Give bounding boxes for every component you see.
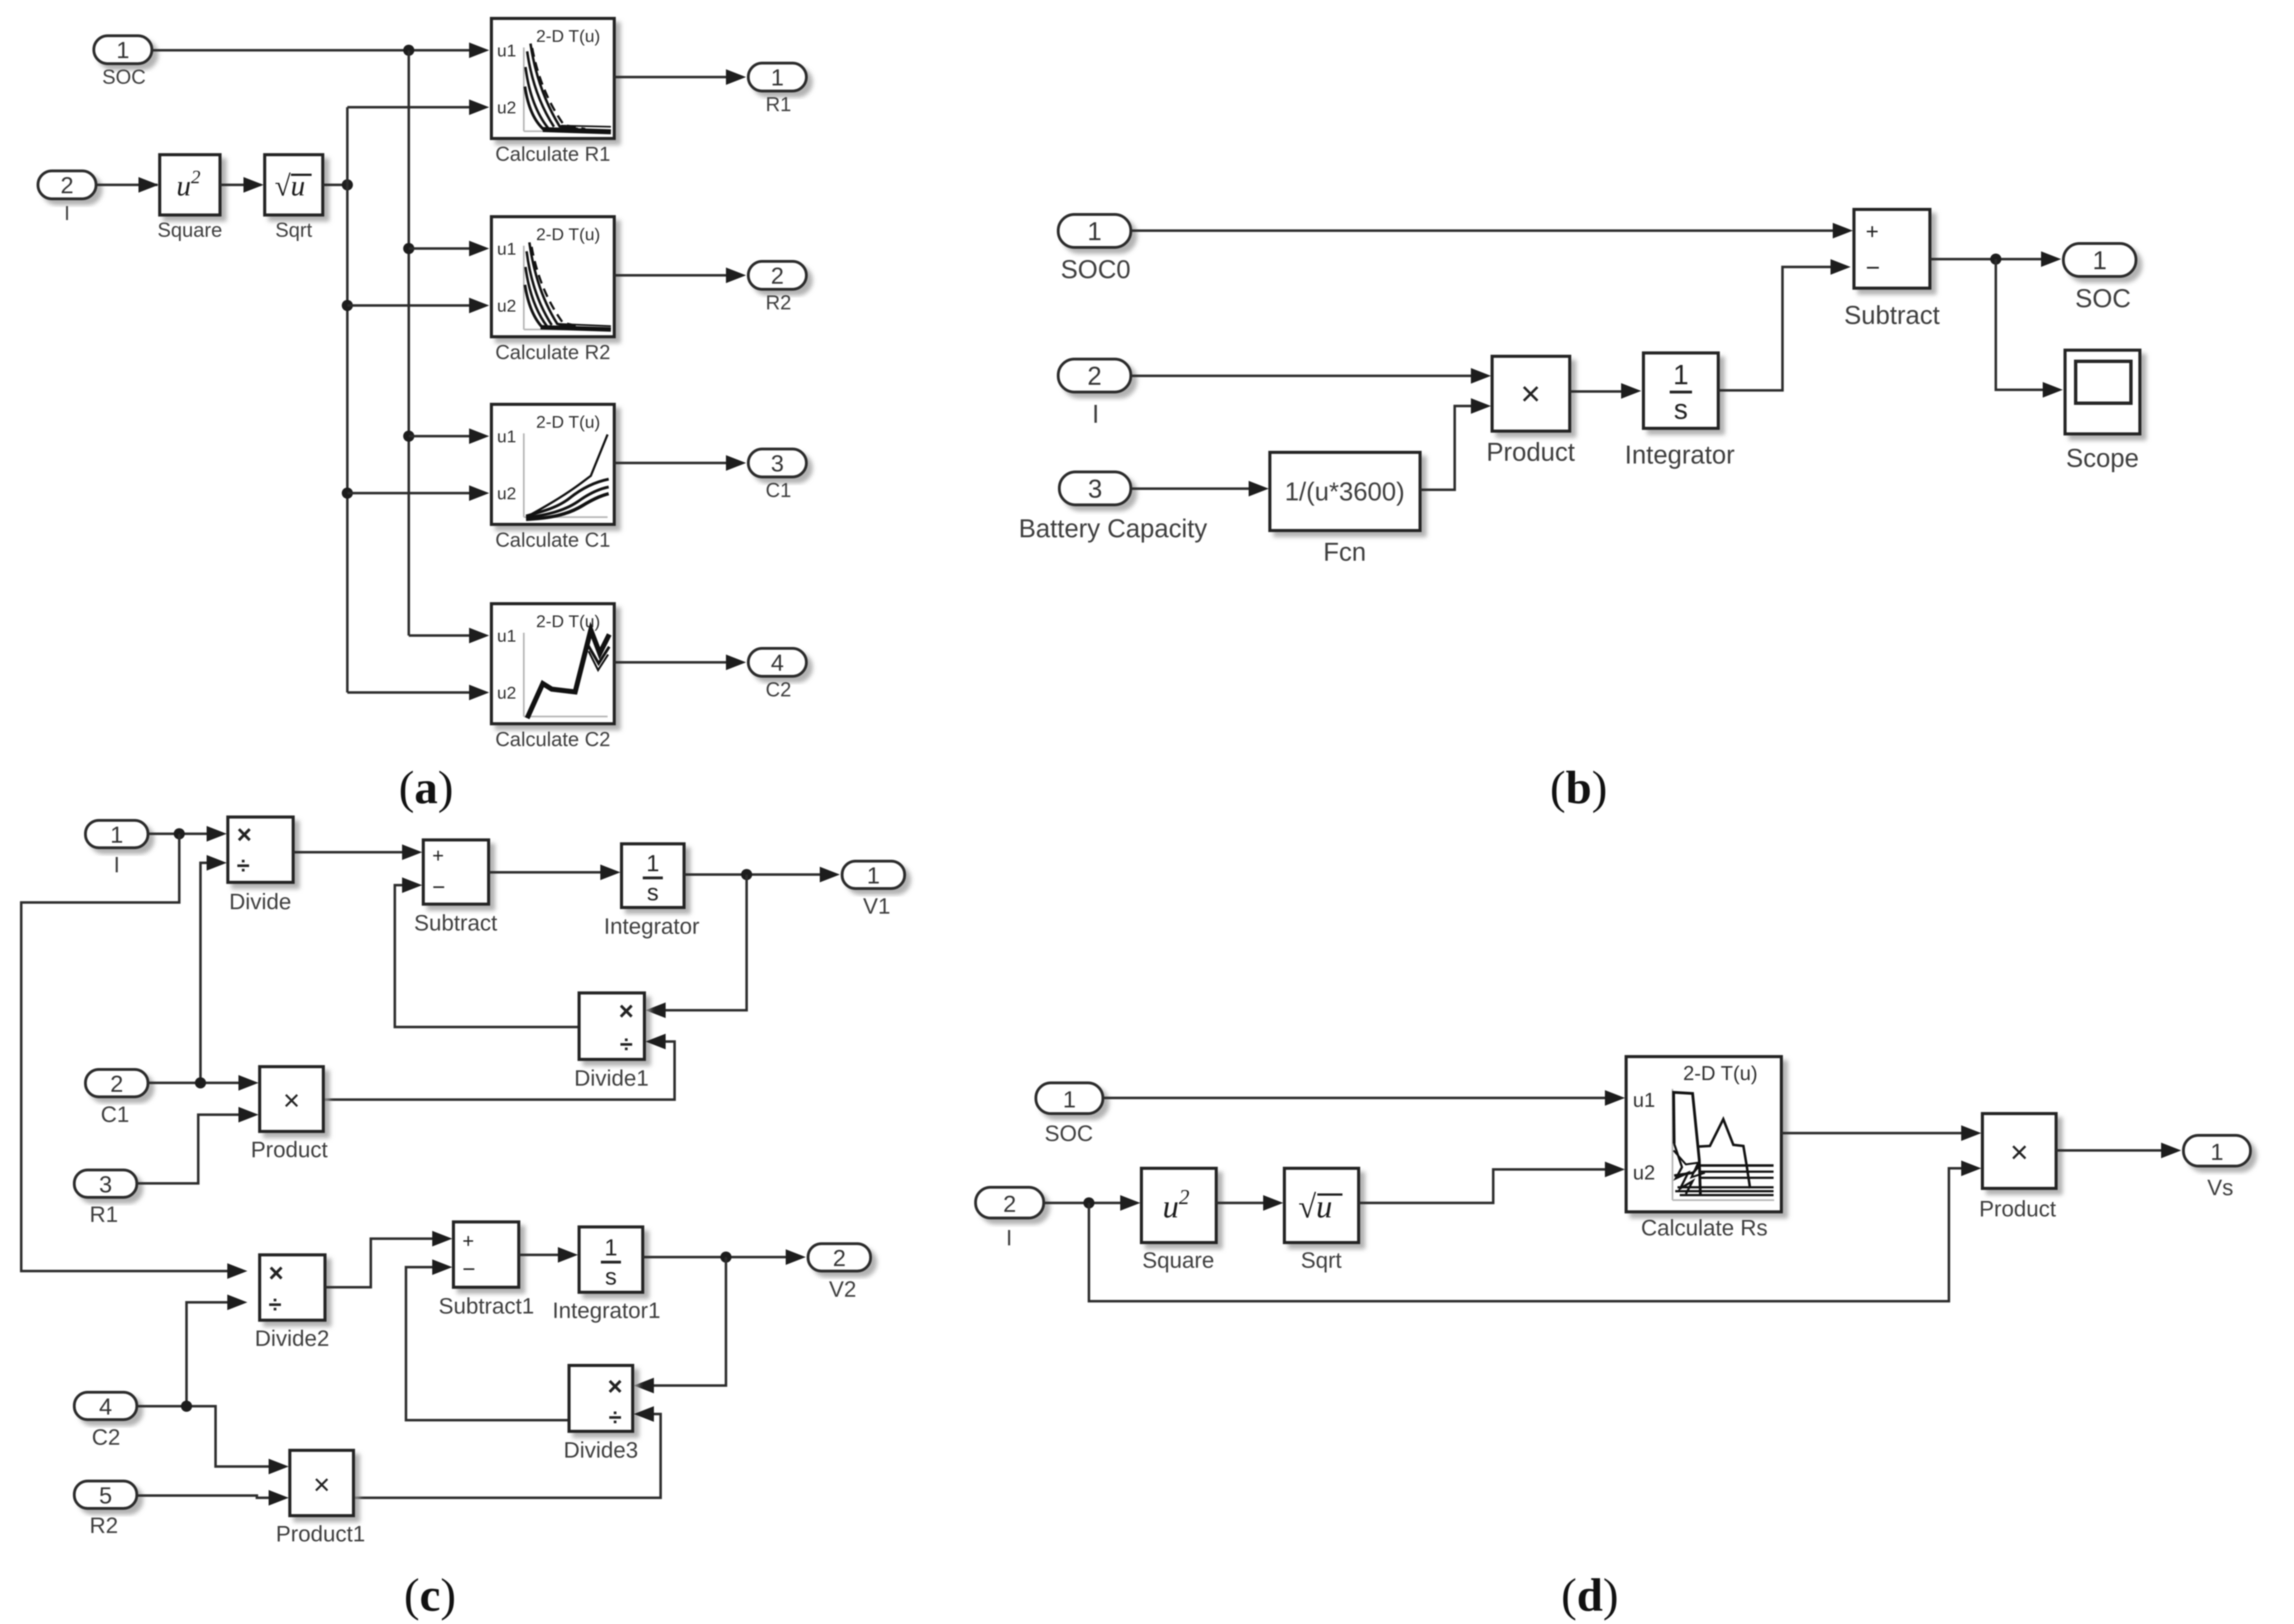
wire R1 to Product second input — [137, 1107, 259, 1183]
wire Square to Sqrt (d) — [1216, 1195, 1283, 1211]
svg-text:C1: C1 — [101, 1102, 129, 1127]
wire Sqrt to bus — [323, 179, 353, 190]
svg-text:s: s — [1674, 394, 1688, 425]
inport 1 SOC (d) — [1036, 1083, 1103, 1146]
svg-text:1: 1 — [1087, 217, 1102, 246]
wire bus to R2 u2 — [342, 298, 489, 313]
svg-text:C2: C2 — [92, 1425, 120, 1450]
wire Integrator to Subtract minus — [1718, 259, 1851, 390]
svg-text:(c): (c) — [404, 1569, 456, 1621]
svg-text:I: I — [64, 202, 70, 225]
svg-text:Subtract: Subtract — [1844, 300, 1940, 329]
svg-text:1: 1 — [1673, 359, 1689, 390]
wire Subtract to Integrator (c) — [489, 864, 620, 880]
wire I loop to Divide2 x-input — [21, 834, 247, 1279]
svg-text:5: 5 — [99, 1482, 112, 1508]
wire Battery Capacity to Fcn — [1131, 481, 1269, 496]
outport 1 SOC — [2063, 243, 2136, 313]
svg-text:R2: R2 — [766, 291, 791, 314]
wire Divide to Subtract plus — [293, 844, 422, 860]
svg-text:Square: Square — [1143, 1248, 1215, 1273]
wire junction to Scope — [1996, 259, 2063, 398]
svg-text:+: + — [1866, 219, 1879, 244]
wire I to Product — [1131, 368, 1491, 384]
svg-text:R2: R2 — [89, 1513, 118, 1538]
svg-text:Calculate C1: Calculate C1 — [495, 528, 610, 551]
svg-text:×: × — [619, 996, 634, 1025]
svg-text:1: 1 — [771, 64, 783, 90]
inport 2 I — [38, 171, 96, 225]
wire Integrator1 to outport V2 — [643, 1249, 806, 1265]
svg-text:Integrator: Integrator — [604, 914, 699, 939]
panel label (c) — [404, 1569, 456, 1621]
svg-text:Divide2: Divide2 — [255, 1326, 329, 1351]
svg-text:I: I — [113, 853, 120, 877]
svg-text:2: 2 — [1003, 1191, 1016, 1217]
svg-text:u2: u2 — [1633, 1161, 1655, 1184]
wire C2 to outport — [614, 655, 746, 670]
wire Product to outport Vs — [2056, 1143, 2181, 1158]
block Product1 — [276, 1450, 365, 1546]
svg-text:×: × — [2010, 1134, 2029, 1169]
wire Fcn to Product second input — [1420, 398, 1491, 490]
inport 4 C2 — [74, 1392, 137, 1450]
svg-text:V2: V2 — [829, 1277, 857, 1302]
svg-text:Integrator: Integrator — [1625, 440, 1735, 469]
outport 1 V1 — [842, 861, 905, 919]
svg-text:1: 1 — [646, 850, 659, 876]
wire C1 to outport — [614, 455, 746, 471]
svg-text:1: 1 — [116, 37, 129, 63]
svg-text:×: × — [283, 1085, 300, 1117]
block Subtract (c) — [414, 840, 498, 935]
wire V1 junction down to Divide1 x-input — [646, 875, 747, 1018]
svg-text:÷: ÷ — [609, 1404, 622, 1430]
wire SOC to Calculate R1 u1 — [152, 42, 489, 58]
wire Subtract1 to Integrator1 — [519, 1247, 578, 1263]
wire bus to C1 u2 — [342, 485, 489, 501]
svg-text:V1: V1 — [863, 894, 891, 919]
svg-text:Divide3: Divide3 — [563, 1438, 638, 1463]
block Product — [1487, 356, 1575, 466]
block Divide2 — [255, 1255, 329, 1351]
outport 3 C1 — [748, 449, 806, 501]
block Square (d) — [1141, 1168, 1216, 1273]
outport 4 C2 — [748, 648, 806, 701]
block Calculate Rs — [1626, 1057, 1781, 1240]
block Integrator1 — [552, 1227, 660, 1323]
wire R2 to Product1 second input — [137, 1490, 289, 1506]
svg-text:1: 1 — [2210, 1139, 2223, 1165]
svg-text:SOC0: SOC0 — [1060, 255, 1130, 284]
wire bus to C1 u1 — [403, 428, 489, 444]
svg-text:÷: ÷ — [620, 1031, 633, 1057]
svg-text:−: − — [1866, 254, 1880, 281]
svg-text:(b): (b) — [1550, 762, 1608, 814]
node bus SOC vertical — [408, 50, 410, 636]
svg-text:Divide: Divide — [229, 890, 291, 914]
block Integrator — [1625, 353, 1735, 469]
block Sqrt — [265, 155, 323, 241]
wire Divide3 to Subtract1 minus — [406, 1259, 569, 1420]
wire I loop to Product (d) second input — [1089, 1160, 1981, 1301]
outport 1 R1 — [748, 63, 806, 116]
svg-text:1: 1 — [2092, 246, 2107, 275]
svg-text:Calculate R2: Calculate R2 — [495, 341, 610, 364]
svg-text:R1: R1 — [766, 93, 791, 116]
wire C2 branch up to Divide2 divide-input — [187, 1295, 247, 1406]
wire SOC0 to Subtract plus — [1131, 223, 1853, 238]
svg-text:s: s — [605, 1263, 617, 1289]
svg-text:4: 4 — [99, 1393, 112, 1420]
svg-text:3: 3 — [771, 450, 783, 476]
svg-text:Subtract: Subtract — [414, 911, 498, 935]
svg-text:3: 3 — [99, 1171, 112, 1197]
block Square — [157, 155, 222, 241]
block Divide3 (mirrored) — [563, 1365, 638, 1463]
svg-text:+: + — [432, 844, 444, 867]
svg-text:4: 4 — [771, 649, 783, 676]
svg-text:2: 2 — [1087, 361, 1102, 390]
svg-text:Scope: Scope — [2066, 443, 2139, 472]
svg-text:3: 3 — [1088, 474, 1102, 503]
svg-text:−: − — [432, 875, 445, 900]
inport 3 Battery Capacity — [1019, 472, 1207, 543]
wire Divide1 to Subtract minus — [395, 877, 579, 1027]
block Subtract1 — [438, 1222, 534, 1319]
wire R2 to outport — [614, 268, 746, 283]
block Calculate R2 — [491, 217, 614, 364]
svg-text:Sqrt: Sqrt — [1301, 1248, 1341, 1273]
wire bus to C2 u1 — [409, 628, 489, 643]
svg-text:÷: ÷ — [237, 852, 250, 878]
block Product (c) — [251, 1067, 328, 1162]
wire C1 branch up to Divide divide-input — [200, 855, 227, 1083]
wire bus to R1 u2 — [347, 99, 489, 115]
svg-text:Product: Product — [1487, 437, 1575, 466]
svg-text:1: 1 — [110, 821, 123, 848]
block Fcn — [1270, 452, 1420, 566]
inport 2 I — [1058, 359, 1131, 428]
svg-text:Integrator1: Integrator1 — [552, 1298, 660, 1323]
svg-text:2-D T(u): 2-D T(u) — [1683, 1062, 1757, 1085]
svg-text:2: 2 — [60, 172, 73, 198]
svg-text:÷: ÷ — [269, 1291, 281, 1317]
svg-text:C2: C2 — [766, 678, 791, 701]
block Subtract — [1844, 209, 1940, 329]
inport 1 SOC — [94, 36, 152, 88]
block Sqrt (d) — [1284, 1168, 1359, 1273]
wire C2 to Product1 first input — [137, 1401, 289, 1474]
inport 1 SOC0 — [1058, 214, 1131, 284]
block Divide — [228, 817, 293, 914]
wire Integrator to outport V1 — [684, 867, 840, 882]
block Integrator (c) — [604, 844, 699, 939]
svg-text:Subtract1: Subtract1 — [438, 1294, 534, 1319]
block Divide1 (mirrored) — [574, 993, 648, 1091]
wire SOC to Calculate Rs u1 — [1103, 1090, 1625, 1106]
svg-text:×: × — [269, 1258, 284, 1287]
wire Product1 out loop to Divide3 divide-input — [353, 1406, 661, 1498]
svg-text:Divide1: Divide1 — [574, 1066, 648, 1091]
wire Sqrt to Calculate Rs u2 — [1359, 1162, 1625, 1203]
wire Square to Sqrt — [220, 177, 264, 193]
inport 1 I — [85, 820, 148, 877]
wire Divide2 to Subtract1 plus — [325, 1231, 452, 1287]
svg-text:R1: R1 — [89, 1202, 118, 1227]
svg-text:1: 1 — [604, 1234, 617, 1260]
wire R1 to outport — [614, 69, 746, 85]
svg-text:(d): (d) — [1561, 1569, 1619, 1621]
svg-text:Battery Capacity: Battery Capacity — [1019, 514, 1207, 543]
wire I to Square (d) — [1044, 1195, 1140, 1211]
svg-text:×: × — [237, 820, 252, 849]
panel label (d) — [1561, 1569, 1619, 1621]
svg-text:Fcn: Fcn — [1323, 537, 1366, 566]
svg-text:u1: u1 — [1633, 1088, 1655, 1111]
svg-text:Calculate C2: Calculate C2 — [495, 728, 610, 751]
wire C1 to Product first input — [148, 1075, 259, 1091]
svg-text:1: 1 — [1063, 1086, 1076, 1112]
svg-text:SOC: SOC — [102, 65, 146, 88]
svg-text:2: 2 — [833, 1245, 845, 1271]
wire I to Square — [96, 177, 159, 193]
svg-text:I: I — [1006, 1226, 1012, 1250]
svg-text:Product: Product — [1979, 1197, 2056, 1221]
scope Scope — [2065, 350, 2140, 472]
block Calculate C1 — [491, 404, 614, 551]
svg-text:×: × — [313, 1469, 330, 1501]
node bus |I| vertical — [346, 107, 349, 692]
svg-text:Calculate R1: Calculate R1 — [495, 142, 610, 165]
svg-text:1/(u*3600): 1/(u*3600) — [1285, 477, 1405, 506]
inport 5 R2 — [74, 1481, 137, 1538]
wire I to Divide x-input — [148, 826, 227, 842]
svg-text:+: + — [462, 1229, 474, 1252]
inport 3 R1 — [74, 1170, 137, 1227]
svg-text:×: × — [1521, 375, 1541, 413]
panel label (b) — [1550, 762, 1608, 814]
svg-text:I: I — [1092, 399, 1100, 428]
svg-text:2: 2 — [110, 1071, 123, 1097]
wire Product to Integrator — [1570, 383, 1641, 399]
svg-text:1: 1 — [867, 862, 880, 889]
svg-text:Calculate Rs: Calculate Rs — [1641, 1216, 1768, 1240]
svg-text:SOC: SOC — [2075, 284, 2131, 313]
svg-text:SOC: SOC — [1045, 1121, 1093, 1146]
svg-text:2: 2 — [771, 262, 783, 289]
svg-text:Product1: Product1 — [276, 1522, 365, 1546]
wire bus to R2 u1 — [403, 241, 489, 256]
wire Calculate Rs to Product (d) — [1781, 1125, 1981, 1141]
outport 2 R2 — [748, 261, 806, 314]
svg-text:(a): (a) — [399, 762, 453, 814]
wire Product out loop to Divide1 divide-input — [323, 1034, 675, 1100]
wire bus to C2 u2 — [347, 685, 489, 700]
wire V2 junction down to Divide3 x-input — [634, 1257, 726, 1393]
outport 2 V2 — [808, 1244, 871, 1302]
block Calculate R1 — [491, 18, 614, 165]
block Calculate C2 — [491, 604, 614, 751]
svg-text:Product: Product — [251, 1138, 328, 1162]
panel label (a) — [399, 762, 453, 814]
wire Subtract to SOC outport — [1930, 251, 2061, 267]
svg-text:−: − — [462, 1257, 475, 1282]
block Product (d) — [1979, 1114, 2056, 1221]
svg-text:Sqrt: Sqrt — [275, 218, 312, 241]
svg-text:s: s — [647, 879, 659, 905]
inport 2 I (d) — [976, 1187, 1044, 1250]
inport 2 C1 — [85, 1069, 148, 1127]
outport 1 Vs — [2183, 1135, 2250, 1200]
svg-text:×: × — [608, 1372, 623, 1401]
svg-text:C1: C1 — [766, 479, 791, 501]
svg-text:Vs: Vs — [2207, 1176, 2234, 1200]
svg-text:Square: Square — [157, 218, 222, 241]
